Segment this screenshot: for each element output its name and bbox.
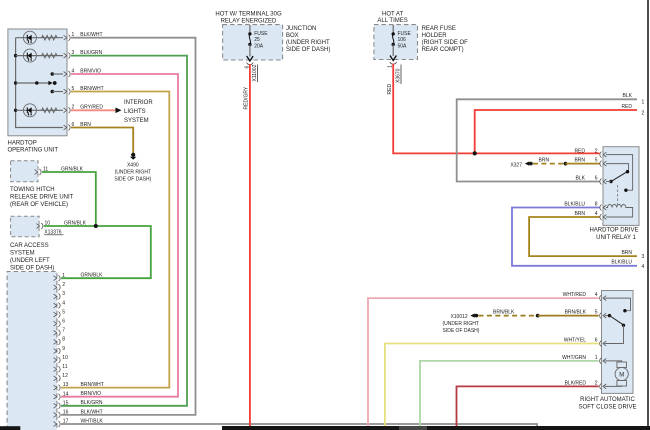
svg-text:BLK/WHT: BLK/WHT bbox=[81, 409, 103, 415]
svg-text:SYSTEM: SYSTEM bbox=[10, 251, 35, 257]
svg-text:HOT W/ TERMINAL 30G: HOT W/ TERMINAL 30G bbox=[215, 12, 282, 18]
bottom left black block bbox=[0, 426, 20, 430]
svg-text:HARDTOP DRIVE: HARDTOP DRIVE bbox=[589, 228, 638, 234]
svg-text:RELEASE DRIVE UNIT: RELEASE DRIVE UNIT bbox=[10, 195, 74, 201]
wire BLK/WHT pin1 to pin16 bbox=[61, 38, 196, 415]
svg-text:4: 4 bbox=[595, 292, 598, 298]
svg-text:4: 4 bbox=[595, 211, 598, 217]
svg-text:FUSE: FUSE bbox=[398, 31, 412, 37]
svg-text:OPERATING UNIT: OPERATING UNIT bbox=[8, 148, 59, 154]
wire BLK/BLU relay pin8 to edge pin 4 bbox=[512, 208, 637, 266]
lamp L1 row wire bbox=[16, 37, 63, 39]
svg-text:20A: 20A bbox=[254, 44, 264, 50]
svg-text:FUSE: FUSE bbox=[254, 31, 268, 37]
svg-text:6: 6 bbox=[595, 338, 598, 344]
pin 6 connector bbox=[64, 125, 71, 131]
fuse 106 bbox=[392, 32, 395, 46]
svg-text:6: 6 bbox=[62, 319, 65, 325]
svg-text:HOLDER: HOLDER bbox=[422, 33, 448, 39]
svg-text:CAR ACCESS: CAR ACCESS bbox=[10, 243, 49, 249]
svg-text:RELAY ENERGIZED: RELAY ENERGIZED bbox=[221, 18, 277, 24]
fuse 25 bbox=[248, 32, 251, 46]
soft close drive box bbox=[602, 291, 634, 394]
svg-text:WHT/YEL: WHT/YEL bbox=[564, 338, 586, 344]
svg-text:2: 2 bbox=[62, 282, 65, 288]
svg-text:106: 106 bbox=[398, 37, 407, 43]
relay actuation dashed line bbox=[617, 185, 619, 205]
motor bottom terminal bbox=[617, 381, 627, 387]
wire BRN relay pin4 to edge pin 3 bbox=[529, 217, 637, 256]
svg-text:INTERIOR: INTERIOR bbox=[124, 100, 153, 106]
svg-text:1: 1 bbox=[642, 99, 645, 105]
svg-text:3: 3 bbox=[642, 254, 645, 260]
svg-text:(UNDER RIGHT: (UNDER RIGHT bbox=[286, 40, 330, 46]
relay coil bbox=[606, 204, 633, 217]
svg-text:SIDE OF DASH): SIDE OF DASH) bbox=[114, 177, 151, 183]
pin 5 connector bbox=[64, 89, 71, 95]
lamp L3 bbox=[23, 104, 36, 117]
svg-text:ALL TIMES: ALL TIMES bbox=[377, 18, 407, 24]
wire WHT/RED pin4 down bbox=[368, 298, 599, 426]
svg-text:4: 4 bbox=[642, 264, 645, 270]
pin 2 connector bbox=[600, 384, 607, 390]
svg-text:1: 1 bbox=[595, 355, 598, 361]
pin 5 connector bbox=[600, 313, 607, 319]
switch contact to pin 5 bbox=[51, 90, 55, 94]
svg-text:RED/GRY: RED/GRY bbox=[244, 86, 250, 109]
lamp L2 row wire bbox=[16, 55, 63, 57]
svg-text:10: 10 bbox=[62, 355, 68, 361]
svg-text:7: 7 bbox=[62, 328, 65, 334]
svg-text:BRN: BRN bbox=[574, 211, 585, 217]
svg-text:2: 2 bbox=[642, 111, 645, 117]
svg-text:RED: RED bbox=[621, 104, 632, 110]
svg-text:BLK/GRN: BLK/GRN bbox=[81, 400, 103, 406]
resistor R3 bbox=[42, 108, 57, 113]
svg-text:(RIGHT SIDE OF: (RIGHT SIDE OF bbox=[422, 40, 469, 46]
wire RED/GRY down bbox=[249, 64, 251, 430]
wire BRN/VIO pin4 to pin14 bbox=[61, 74, 178, 397]
svg-text:14: 14 bbox=[63, 391, 69, 397]
svg-text:BLK/BLU: BLK/BLU bbox=[564, 202, 585, 208]
internal: pin5 pivot bbox=[605, 315, 610, 317]
connector X490 symbol bbox=[131, 153, 135, 157]
right frame border bbox=[647, 0, 649, 430]
wire BLK/GRN pin3 to pin15 bbox=[61, 56, 187, 406]
pin 6 connector bbox=[600, 341, 607, 347]
svg-text:8: 8 bbox=[62, 337, 65, 343]
svg-text:1: 1 bbox=[62, 273, 65, 279]
17-pin module box bbox=[7, 272, 57, 430]
svg-text:BLK: BLK bbox=[623, 93, 633, 99]
svg-text:BRN: BRN bbox=[539, 158, 550, 164]
fuse 25 feed wire bbox=[249, 25, 251, 34]
relay internal: pin2 to NO contact bbox=[606, 155, 633, 191]
svg-text:UNIT RELAY 1: UNIT RELAY 1 bbox=[596, 235, 636, 241]
svg-text:TOWING HITCH: TOWING HITCH bbox=[10, 187, 55, 193]
pin 10 connector bbox=[36, 223, 43, 229]
towing hitch release drive unit box bbox=[11, 161, 38, 182]
svg-text:RED: RED bbox=[387, 84, 393, 95]
wire GRN/BLK pin11 bbox=[42, 172, 96, 226]
svg-text:REAR COMPT): REAR COMPT) bbox=[422, 47, 464, 53]
svg-text:25: 25 bbox=[254, 37, 260, 43]
svg-text:50A: 50A bbox=[398, 44, 408, 50]
svg-text:HOT AT: HOT AT bbox=[382, 11, 403, 17]
wire BRN pin6 to X490 bbox=[71, 128, 133, 154]
svg-text:HARDTOP: HARDTOP bbox=[8, 141, 37, 147]
svg-text:BRN/WHT: BRN/WHT bbox=[81, 382, 104, 388]
junction dot RED bbox=[473, 151, 477, 155]
svg-text:BRN: BRN bbox=[621, 250, 632, 256]
svg-text:BLK: BLK bbox=[576, 176, 586, 182]
bottom black bar bbox=[222, 426, 650, 430]
svg-text:(UNDER LEFT: (UNDER LEFT bbox=[10, 258, 50, 264]
relay pin 5 connector bbox=[600, 161, 607, 167]
motor M internal wire pin1 bbox=[605, 361, 622, 362]
svg-text:8: 8 bbox=[595, 202, 598, 208]
internal: pin4 to NO contact bbox=[605, 298, 631, 311]
wire BRN/BLK dashed from X10012 bbox=[479, 315, 537, 317]
wire GRY/RED to interior lights system bbox=[71, 109, 116, 111]
svg-text:17: 17 bbox=[63, 419, 69, 425]
junction dot GRN/BLK bbox=[94, 224, 98, 228]
pin 4 connector bbox=[64, 71, 71, 77]
svg-text:BRN/BLK: BRN/BLK bbox=[493, 310, 515, 316]
svg-text:5: 5 bbox=[62, 309, 65, 315]
relay switch arm bbox=[611, 172, 628, 182]
wire BRN solid to relay pin 5 bbox=[566, 163, 600, 165]
junction dot BRN/BLK bbox=[536, 314, 540, 318]
wire GRN/BLK pin10 to big box pin1 bbox=[44, 226, 151, 278]
relay pin 2 connector bbox=[600, 152, 607, 158]
bottom bar gray thumb bbox=[399, 426, 427, 430]
svg-text:GRN/BLK: GRN/BLK bbox=[61, 166, 84, 172]
wire WHT/GRN pin1 down bbox=[420, 361, 599, 426]
wire RED branch up to edge pin 2 bbox=[475, 110, 637, 153]
relay internal: pin5 branch bbox=[606, 164, 629, 171]
svg-text:11: 11 bbox=[62, 364, 67, 370]
wire BRN dashed from X327 bbox=[533, 163, 564, 165]
svg-text:SIDE OF DASH): SIDE OF DASH) bbox=[286, 47, 330, 53]
relay pin 8 connector bbox=[600, 205, 607, 211]
junction dot BRN bbox=[564, 162, 568, 166]
svg-text:6: 6 bbox=[595, 176, 598, 182]
svg-text:2: 2 bbox=[595, 149, 598, 155]
svg-text:16: 16 bbox=[63, 410, 69, 416]
wire WHT/YEL pin6 down bbox=[385, 344, 599, 427]
pin 1 connector bbox=[600, 358, 607, 364]
svg-text:SOFT CLOSE DRIVE: SOFT CLOSE DRIVE bbox=[579, 405, 637, 411]
svg-text:SYSTEM: SYSTEM bbox=[124, 118, 149, 124]
resistor R2 bbox=[42, 53, 57, 58]
svg-text:X10012: X10012 bbox=[450, 314, 467, 320]
switch common wire bbox=[16, 82, 49, 84]
car access system box bbox=[11, 216, 39, 237]
rear fuse holder box bbox=[374, 25, 418, 60]
switch arm tip arrow bbox=[48, 81, 52, 86]
box exit arrow bbox=[247, 56, 253, 61]
junction box bbox=[223, 25, 283, 60]
wire BLK from edge pin 1 to relay pin 6 bbox=[457, 99, 637, 181]
wire BRN/WHT pin5 to pin13 bbox=[61, 92, 169, 388]
interior lights system arrow bbox=[116, 108, 122, 114]
internal: pin6 to arm contact bbox=[605, 325, 624, 343]
internal bus wire bbox=[16, 38, 63, 128]
svg-text:WHT/RED: WHT/RED bbox=[563, 292, 587, 298]
svg-text:BRN/BLK: BRN/BLK bbox=[565, 310, 587, 316]
svg-text:BLK/RED: BLK/RED bbox=[565, 380, 587, 386]
svg-text:15: 15 bbox=[63, 400, 69, 406]
resistor R1 bbox=[42, 35, 57, 40]
svg-text:WHT/GRN: WHT/GRN bbox=[562, 355, 586, 361]
relay pin 6 connector bbox=[600, 179, 607, 185]
svg-text:(UNDER RIGHT: (UNDER RIGHT bbox=[115, 170, 151, 176]
svg-text:JUNCTION: JUNCTION bbox=[286, 26, 316, 32]
svg-text:SIDE OF DASH): SIDE OF DASH) bbox=[10, 266, 54, 272]
svg-text:RED: RED bbox=[574, 149, 585, 155]
svg-text:REAR FUSE: REAR FUSE bbox=[422, 26, 456, 32]
wire RED from fuse to relay pin 2 bbox=[393, 64, 599, 154]
fuse 106 feed wire bbox=[392, 25, 394, 34]
svg-text:5: 5 bbox=[595, 158, 598, 164]
wire WHT/BLK pin17 bbox=[61, 424, 537, 430]
svg-text:5: 5 bbox=[595, 310, 598, 316]
bus junction node dots bbox=[14, 54, 17, 57]
svg-text:M: M bbox=[619, 373, 624, 379]
box exit female cup bbox=[390, 62, 397, 64]
relay pin 4 connector bbox=[600, 214, 607, 220]
svg-text:9: 9 bbox=[62, 346, 65, 352]
motor internal wire pin2 bbox=[605, 385, 622, 387]
svg-text:12: 12 bbox=[62, 373, 68, 379]
svg-text:13: 13 bbox=[63, 382, 69, 388]
svg-text:BOX: BOX bbox=[286, 33, 299, 39]
box exit arrow bbox=[390, 56, 396, 61]
svg-text:GRN/BLK: GRN/BLK bbox=[64, 220, 87, 226]
lamp L2 bbox=[23, 49, 36, 62]
svg-text:SIDE OF DASH): SIDE OF DASH) bbox=[443, 328, 480, 334]
svg-text:RIGHT AUTOMATIC: RIGHT AUTOMATIC bbox=[580, 397, 635, 403]
svg-text:(REAR OF VEHICLE): (REAR OF VEHICLE) bbox=[10, 202, 68, 208]
switch arm bbox=[610, 316, 624, 325]
hardtop operating unit box bbox=[8, 29, 67, 136]
lamp L3 row wire bbox=[16, 109, 63, 111]
pin 2 connector bbox=[64, 107, 71, 113]
svg-text:X490: X490 bbox=[127, 163, 139, 169]
svg-text:2: 2 bbox=[595, 380, 598, 386]
pin 11 connector bbox=[35, 169, 42, 175]
motor top terminal bbox=[617, 362, 627, 368]
svg-text:BRN: BRN bbox=[574, 158, 585, 164]
switch common junction dot bbox=[35, 81, 38, 84]
svg-text:4: 4 bbox=[62, 300, 65, 306]
svg-text:3: 3 bbox=[62, 291, 65, 297]
svg-text:(UNDER RIGHT: (UNDER RIGHT bbox=[443, 321, 479, 327]
wire BLK/RED pin2 down bbox=[457, 386, 599, 426]
pins 1-17 connectors and numbers bbox=[54, 273, 69, 427]
wire BRN/BLK solid to pin 5 bbox=[538, 315, 599, 317]
box exit female cup bbox=[247, 63, 254, 65]
switch contact to pin 4 bbox=[51, 72, 55, 76]
svg-text:WHT/BLK: WHT/BLK bbox=[81, 418, 104, 424]
pin 3 connector bbox=[64, 53, 71, 59]
lamp L1 bbox=[23, 31, 36, 44]
motor M bbox=[615, 367, 628, 380]
pin 4 connector bbox=[600, 295, 607, 301]
relay box bbox=[603, 147, 639, 226]
svg-text:LIGHTS: LIGHTS bbox=[124, 109, 146, 115]
svg-text:X327: X327 bbox=[510, 163, 522, 169]
relay internal: pin6 stub bbox=[606, 181, 611, 183]
svg-text:BRN/VIO: BRN/VIO bbox=[81, 391, 102, 397]
svg-text:GRN/BLK: GRN/BLK bbox=[81, 272, 104, 278]
switch center contact dot bbox=[53, 81, 57, 85]
pin 1 connector bbox=[64, 35, 71, 41]
svg-text:BLK/BLU: BLK/BLU bbox=[611, 260, 632, 266]
